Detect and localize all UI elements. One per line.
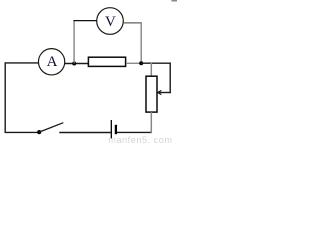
wire: right side vertical of slider loop — [169, 63, 171, 94]
wire: voltmeter left lead horizontal — [73, 20, 96, 22]
ammeter U1 (circle with letter A) — [38, 49, 64, 75]
top-right edge artifact dash — [171, 0, 177, 2]
svg-text:V: V — [105, 14, 116, 30]
wire: rheostat top stub (gray) — [150, 63, 152, 77]
switch S (pivot dot and open lever) — [37, 123, 63, 135]
wire: left vertical side — [4, 62, 6, 133]
wire: top-left horizontal to ammeter — [5, 62, 39, 64]
rheostat slider arrow (points left into box) — [158, 90, 162, 94]
wire: voltmeter right lead vertical (gray) — [140, 23, 142, 63]
wire: rheostat bottom stub (gray) — [150, 112, 152, 133]
resistor R1 (rectangle box) — [88, 57, 125, 66]
wire: switch to battery — [59, 132, 111, 134]
rheostat R2 (vertical box) — [146, 76, 157, 112]
wire: voltmeter left lead vertical (gray) — [73, 21, 75, 64]
svg-text:A: A — [47, 54, 58, 70]
wire: ammeter to resistor — [65, 63, 89, 65]
battery (cell: long thin plate and short thick plate) — [111, 120, 116, 138]
wire: slider loop bottom horizontal — [159, 92, 171, 94]
wire: resistor right lead (gray) — [126, 62, 141, 64]
node: junction dot at resistor right / voltmeter right lead — [139, 61, 143, 65]
svg-text:manfen5. com: manfen5. com — [108, 135, 172, 145]
wire: voltmeter right lead horizontal (gray) — [123, 22, 142, 24]
wire: battery to bottom-right corner — [117, 131, 152, 133]
node: junction dot at ammeter right / voltmeter left lead — [72, 62, 76, 66]
wire: junction to top-right corner — [141, 62, 171, 64]
voltmeter U2 (circle with letter V) — [97, 8, 124, 35]
wire: bottom-left horizontal to switch — [5, 131, 40, 133]
